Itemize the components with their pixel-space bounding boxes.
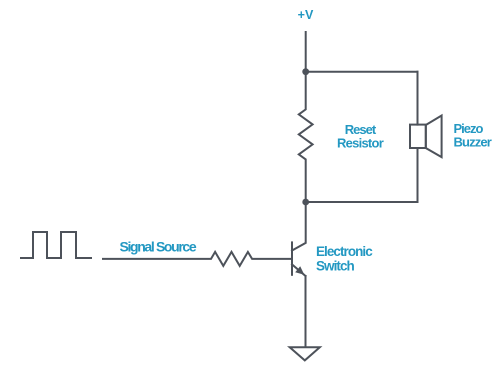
resistor R1 reset resistor (vertical zigzag)	[299, 72, 313, 202]
signal source square wave	[21, 232, 91, 258]
wire base input with resistor R2 (base resistor zigzag)	[103, 252, 292, 266]
junction J1	[302, 68, 309, 75]
piezo buzzer LS1 horn	[426, 116, 442, 158]
wire buzzer top vertical	[417, 72, 419, 125]
svg-text:+V: +V	[298, 8, 314, 22]
svg-text:Resistor: Resistor	[337, 136, 384, 151]
wire bottom horizontal to junction	[306, 201, 418, 203]
piezo buzzer LS1 body	[410, 125, 426, 148]
transistor Q1 emitter arrowhead	[295, 266, 304, 275]
transistor Q1 base bar	[291, 242, 293, 274]
wire top horizontal to buzzer	[306, 71, 418, 73]
junction J2	[302, 199, 309, 206]
ground symbol	[290, 347, 320, 360]
svg-text:Switch: Switch	[316, 258, 355, 273]
transistor Q1 collector	[292, 202, 306, 251]
svg-text:Electronic: Electronic	[316, 244, 373, 259]
svg-text:Signal Source: Signal Source	[120, 238, 197, 254]
wire emitter to ground	[305, 276, 307, 347]
svg-text:Buzzer: Buzzer	[454, 135, 492, 150]
transistor Q1 emitter	[292, 264, 306, 276]
wire buzzer bottom vertical	[417, 148, 419, 202]
wire +V supply vertical	[305, 32, 307, 72]
